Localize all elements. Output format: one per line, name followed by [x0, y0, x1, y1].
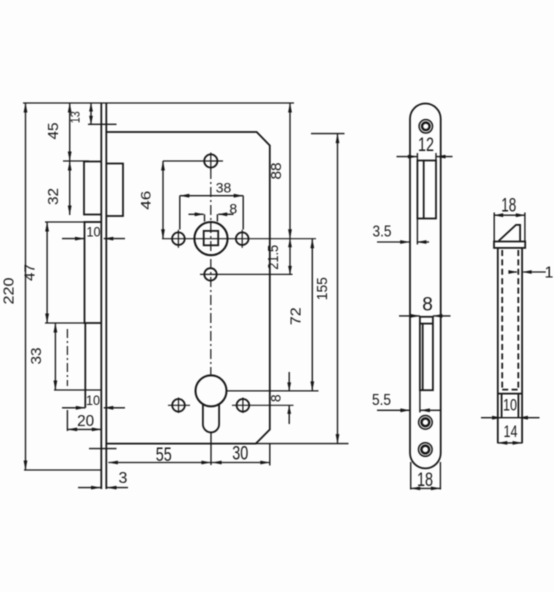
- dim 21.5: [265, 239, 292, 275]
- svg-text:32: 32: [45, 188, 62, 205]
- svg-text:20: 20: [77, 413, 94, 430]
- dim 8 right (cylinder to hole): [268, 372, 292, 424]
- svg-text:3.5: 3.5: [373, 224, 392, 241]
- faceplate top screw hole: [419, 120, 432, 133]
- deadbolt box (protruding left of faceplate): [85, 222, 102, 323]
- latch guide box (inside case): [106, 164, 123, 217]
- cylinder left fixing hole: [168, 398, 190, 414]
- extension lines faceplate width: [411, 462, 441, 490]
- top screw hole: [204, 153, 217, 170]
- dim 3.5: [373, 219, 430, 245]
- svg-text:88: 88: [268, 163, 285, 180]
- extension line case bottom (155): [256, 443, 349, 445]
- extension line cylinder center: [227, 390, 319, 392]
- left fixing hole: [172, 230, 185, 248]
- dim 45: [45, 103, 89, 161]
- svg-text:72: 72: [287, 307, 304, 325]
- dim 8 square: [189, 201, 238, 222]
- deadbolt tube outer walls: [498, 248, 522, 443]
- dim 20: [68, 413, 102, 432]
- svg-text:8: 8: [268, 394, 284, 402]
- svg-text:14: 14: [504, 422, 518, 441]
- deadbolt collar: [494, 242, 525, 248]
- svg-text:33: 33: [28, 348, 45, 365]
- deadbolt axis centerline: [66, 329, 68, 431]
- deadbolt slot (side view): [420, 317, 433, 390]
- extension line deadbolt top: [45, 221, 101, 223]
- extension line lower hole center: [200, 273, 293, 275]
- svg-text:46: 46: [138, 191, 154, 210]
- svg-text:3: 3: [119, 470, 128, 487]
- dim 88: [268, 103, 292, 239]
- dim 155: [314, 134, 339, 444]
- deadbolt tube bottom edge: [498, 393, 522, 395]
- dim 13: [69, 103, 117, 124]
- extension line deadbolt bottom: [45, 322, 85, 324]
- lower small hole: [204, 268, 216, 280]
- svg-text:8: 8: [422, 295, 433, 316]
- dim 47: [22, 222, 49, 323]
- cylinder right fixing hole: [237, 398, 250, 414]
- dim 18 right view: [494, 196, 526, 243]
- dim 38: [180, 179, 243, 229]
- svg-text:8: 8: [229, 201, 237, 217]
- deadbolt tube hidden inner walls (dashed): [502, 250, 518, 390]
- svg-text:155: 155: [314, 277, 331, 300]
- svg-text:10: 10: [87, 223, 101, 239]
- dim 18 middle: [411, 470, 441, 491]
- dim 5.5: [372, 390, 442, 412]
- faceplate lower screw hole 1: [419, 416, 433, 430]
- svg-text:38: 38: [216, 179, 232, 195]
- dim 55 and 30: [108, 444, 269, 467]
- latch slot (side view): [417, 161, 436, 219]
- dim 33: [28, 323, 57, 390]
- dim 32: [45, 161, 72, 215]
- svg-text:12: 12: [418, 135, 434, 156]
- dim 10 upper (latch protrusion): [62, 223, 125, 240]
- faceplate lower screw hole 2: [419, 443, 433, 457]
- faceplate (front view, vertical strip): [101, 103, 106, 489]
- extension line case top (155): [311, 133, 345, 135]
- svg-text:30: 30: [232, 444, 248, 465]
- svg-text:1: 1: [545, 265, 554, 282]
- svg-text:18: 18: [501, 196, 516, 217]
- dim 3 (faceplate thickness): [78, 470, 128, 490]
- lock case outline: [106, 132, 269, 444]
- extension line bottom (faceplate bottom, 220): [24, 469, 101, 471]
- extension line cylinder right hole: [232, 404, 294, 406]
- square spindle hole: [204, 231, 219, 245]
- dim 8 middle: [399, 295, 451, 318]
- svg-text:55: 55: [156, 445, 172, 466]
- right fixing hole: [236, 230, 249, 248]
- svg-text:45: 45: [45, 123, 62, 140]
- euro profile cylinder hole: [196, 375, 227, 432]
- svg-text:47: 47: [22, 264, 39, 281]
- extension line spindle center: [162, 238, 316, 240]
- dim 1 (wall thickness): [508, 265, 553, 282]
- vertical centerline (spindle axis): [210, 169, 212, 376]
- dim 72: [287, 239, 314, 391]
- extension line top hole center: [163, 160, 223, 162]
- dim 46: [138, 161, 165, 239]
- faceplate side view outline (rounded ends): [410, 103, 441, 468]
- tick case bottom at faceplate: [89, 448, 117, 450]
- svg-text:220: 220: [1, 278, 18, 305]
- dim 12: [397, 135, 453, 161]
- dim 10 lower (deadbolt protrusion): [62, 392, 125, 410]
- extension line case right bottom: [269, 444, 271, 466]
- deadbolt tail box: [54, 323, 101, 408]
- svg-text:5.5: 5.5: [372, 392, 391, 409]
- svg-text:10: 10: [86, 392, 100, 408]
- spindle follower circle: [194, 222, 227, 255]
- latch bolt box (protruding left of faceplate): [84, 162, 101, 215]
- dim 14 right view: [498, 422, 522, 445]
- dim 10 right view: [481, 396, 540, 420]
- deadbolt insert box walls: [502, 394, 519, 418]
- svg-text:21.5: 21.5: [265, 245, 282, 270]
- extension line top (faceplate top): [23, 102, 294, 104]
- deadbolt head bevel (triangle): [499, 225, 520, 241]
- svg-text:13: 13: [69, 111, 83, 123]
- svg-text:10: 10: [503, 396, 517, 415]
- dim 220: [1, 103, 28, 470]
- extension line cylinder axis bottom: [210, 432, 212, 465]
